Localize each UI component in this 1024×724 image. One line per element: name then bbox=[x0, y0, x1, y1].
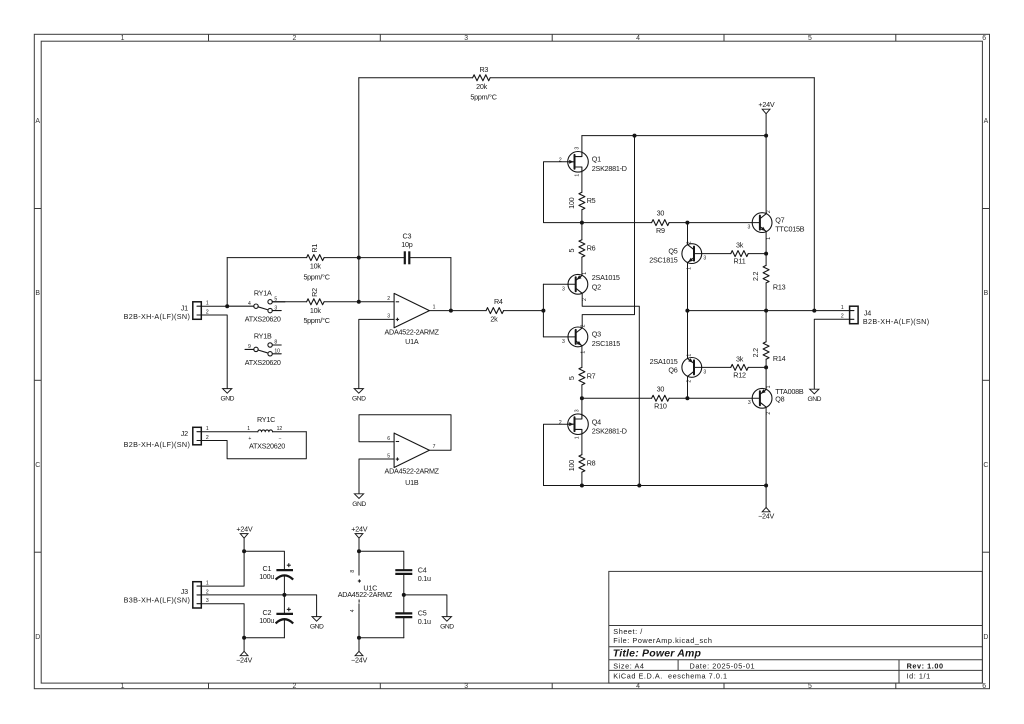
wire Q8 collector bbox=[765, 407, 767, 485]
svg-text:Rev: 1.00: Rev: 1.00 bbox=[907, 661, 944, 670]
svg-text:5ppm/°C: 5ppm/°C bbox=[303, 273, 329, 282]
connector J4 bbox=[841, 305, 930, 326]
relay switch RY1B bbox=[245, 332, 281, 367]
wire Q7 emitter bbox=[765, 232, 767, 254]
op-amp U1B bbox=[359, 415, 451, 494]
svg-text:ATXS20620: ATXS20620 bbox=[249, 442, 285, 451]
svg-text:GND: GND bbox=[808, 396, 822, 403]
svg-text:A: A bbox=[35, 118, 40, 125]
svg-text:GND: GND bbox=[352, 501, 366, 508]
wire Q2 collector to right rail bbox=[582, 293, 639, 485]
svg-text:3k: 3k bbox=[736, 355, 744, 364]
svg-text:Title: Power Amp: Title: Power Amp bbox=[613, 648, 702, 660]
node R9 Q5 junction bbox=[685, 221, 689, 225]
svg-text:100u: 100u bbox=[259, 616, 274, 625]
node R5 R6 junction bbox=[580, 221, 584, 225]
wire Q5 emitter bbox=[687, 263, 689, 311]
svg-text:Size: A4: Size: A4 bbox=[613, 661, 644, 670]
node -24V J3 junction bbox=[242, 636, 246, 640]
svg-text:1: 1 bbox=[841, 305, 844, 311]
svg-text:ATXS20620: ATXS20620 bbox=[245, 358, 281, 367]
node R14 R12 junction bbox=[764, 365, 768, 369]
svg-text:3k: 3k bbox=[736, 241, 744, 250]
resistor R9 bbox=[582, 209, 688, 235]
power -24V at U1C bbox=[351, 651, 367, 664]
svg-text:1: 1 bbox=[575, 174, 581, 177]
wire Q4 drain up bbox=[581, 398, 583, 414]
node R2 U1A junction bbox=[357, 300, 361, 304]
svg-text:4: 4 bbox=[248, 301, 251, 307]
svg-text:2.2: 2.2 bbox=[751, 272, 760, 281]
svg-text:−24V: −24V bbox=[351, 656, 367, 665]
title block text kicad bbox=[613, 672, 727, 681]
svg-text:3: 3 bbox=[748, 400, 751, 406]
connector J2 bbox=[124, 426, 209, 449]
svg-text:10k: 10k bbox=[310, 262, 321, 271]
wire Q7 collector bbox=[765, 136, 767, 214]
capacitor C3 bbox=[359, 232, 451, 311]
power +24V at J3 bbox=[236, 525, 252, 539]
svg-text:B3B-XH-A(LF)(SN): B3B-XH-A(LF)(SN) bbox=[124, 595, 191, 604]
svg-text:Q6: Q6 bbox=[668, 365, 677, 374]
svg-text:2SC1815: 2SC1815 bbox=[649, 256, 677, 265]
svg-text:20k: 20k bbox=[476, 82, 487, 91]
svg-text:+24V: +24V bbox=[236, 525, 252, 534]
svg-text:B: B bbox=[984, 290, 989, 297]
wire Q1 gate bbox=[544, 162, 582, 223]
wire output mid rail bbox=[687, 310, 814, 312]
svg-text:1: 1 bbox=[121, 683, 125, 690]
svg-text:2: 2 bbox=[292, 35, 296, 42]
svg-text:Q1: Q1 bbox=[592, 155, 601, 164]
svg-text:RY1A: RY1A bbox=[254, 288, 272, 297]
relay switch RY1A bbox=[227, 288, 285, 323]
node J1 pin1 junction bbox=[225, 304, 229, 308]
wire J3 pin2 to GND bbox=[201, 595, 316, 617]
svg-text:2: 2 bbox=[387, 296, 390, 302]
wire J1 pin2 to GND bbox=[201, 315, 227, 389]
resistor R14 bbox=[751, 311, 785, 368]
svg-text:2SK2881-D: 2SK2881-D bbox=[592, 164, 627, 173]
svg-text:5: 5 bbox=[808, 35, 812, 42]
node R7 R10 junction bbox=[580, 396, 584, 400]
op-amp U1A bbox=[359, 293, 451, 388]
wire +24V to U1C junction bbox=[358, 538, 360, 551]
resistor R3 bbox=[359, 65, 815, 311]
connector J3 bbox=[124, 581, 209, 608]
svg-text:GND: GND bbox=[220, 396, 234, 403]
svg-text:R2: R2 bbox=[310, 288, 319, 297]
svg-text:4: 4 bbox=[350, 609, 356, 612]
node R10 Q6 junction bbox=[685, 396, 689, 400]
svg-text:ADA4522-2ARMZ: ADA4522-2ARMZ bbox=[384, 328, 439, 337]
transistor Q2 bbox=[562, 272, 620, 301]
svg-text:2: 2 bbox=[766, 210, 772, 213]
transistor Q6 bbox=[650, 354, 707, 383]
wire Q4 source to R8 bbox=[581, 435, 583, 455]
svg-text:4: 4 bbox=[636, 35, 640, 42]
svg-text:U1A: U1A bbox=[405, 337, 419, 346]
ground GND at J4 bbox=[808, 389, 822, 403]
svg-text:Q2: Q2 bbox=[592, 282, 601, 291]
svg-text:Q4: Q4 bbox=[592, 417, 601, 426]
svg-text:Q5: Q5 bbox=[668, 247, 677, 256]
svg-text:6: 6 bbox=[387, 436, 390, 442]
svg-text:3: 3 bbox=[464, 683, 468, 690]
svg-text:6: 6 bbox=[982, 35, 986, 42]
svg-text:J2: J2 bbox=[181, 429, 188, 438]
svg-text:R4: R4 bbox=[494, 297, 503, 306]
svg-text:Sheet: /: Sheet: / bbox=[613, 627, 643, 636]
svg-text:ADA4522-2ARMZ: ADA4522-2ARMZ bbox=[385, 467, 440, 476]
ground GND at U1B pin5 bbox=[352, 494, 366, 508]
svg-text:1: 1 bbox=[582, 272, 588, 275]
wire J1 pin1 to junction bbox=[201, 305, 227, 307]
node R4 output junction bbox=[541, 309, 545, 313]
wire Q4 gate bbox=[544, 424, 568, 485]
svg-text:8: 8 bbox=[350, 570, 356, 573]
svg-text:2: 2 bbox=[559, 158, 562, 164]
title block text sheet bbox=[613, 627, 643, 636]
wire J4 pin2 to GND bbox=[814, 319, 849, 389]
wire junction up to R1 bbox=[226, 258, 228, 307]
svg-text:Q3: Q3 bbox=[592, 330, 601, 339]
transistor Q4 bbox=[559, 409, 627, 439]
svg-text:5: 5 bbox=[567, 376, 576, 380]
node mid rail R3 bbox=[812, 309, 816, 313]
svg-text:2.2: 2.2 bbox=[751, 348, 760, 357]
wire Q3 collector to top rail bbox=[582, 136, 634, 328]
svg-text:GND: GND bbox=[440, 624, 454, 631]
svg-text:3: 3 bbox=[703, 256, 706, 262]
title block text size bbox=[613, 661, 644, 670]
svg-text:B: B bbox=[35, 290, 40, 297]
svg-text:5: 5 bbox=[567, 248, 576, 252]
svg-text:1: 1 bbox=[121, 35, 125, 42]
svg-text:C: C bbox=[35, 462, 40, 469]
svg-text:R1: R1 bbox=[310, 244, 319, 253]
node -24V U1C junction bbox=[357, 636, 361, 640]
node +24V rail junction bbox=[764, 134, 768, 138]
op-amp power unit U1C bbox=[338, 551, 393, 638]
svg-text:4: 4 bbox=[636, 683, 640, 690]
svg-text:B2B-XH-A(LF)(SN): B2B-XH-A(LF)(SN) bbox=[124, 312, 191, 321]
wire +24V to J3 junction bbox=[243, 538, 245, 551]
node Q2 collector rail junction bbox=[637, 484, 641, 488]
svg-text:B2B-XH-A(LF)(SN): B2B-XH-A(LF)(SN) bbox=[863, 317, 930, 326]
svg-text:2SK2881-D: 2SK2881-D bbox=[592, 427, 627, 436]
wire J3 pin3 down bbox=[201, 604, 244, 638]
transistor Q8 bbox=[748, 385, 804, 414]
svg-text:3: 3 bbox=[562, 287, 565, 293]
resistor R6 bbox=[567, 223, 596, 276]
svg-text:6: 6 bbox=[982, 683, 986, 690]
wire Q3 base bbox=[543, 336, 568, 338]
transistor Q3 bbox=[562, 324, 620, 353]
relay coil RY1C bbox=[201, 415, 306, 459]
title block text file bbox=[613, 636, 712, 645]
svg-text:R3: R3 bbox=[479, 65, 488, 74]
resistor R2 bbox=[272, 288, 359, 325]
svg-text:R8: R8 bbox=[587, 459, 596, 468]
node R11 Q7 junction bbox=[764, 252, 768, 256]
wire mid rail to J4 pin1 bbox=[814, 310, 849, 312]
svg-text:10k: 10k bbox=[310, 306, 321, 315]
svg-text:2SC1815: 2SC1815 bbox=[592, 339, 620, 348]
svg-text:2SA1015: 2SA1015 bbox=[592, 273, 620, 282]
svg-text:1: 1 bbox=[766, 385, 772, 388]
svg-text:3: 3 bbox=[748, 225, 751, 231]
svg-text:B2B-XH-A(LF)(SN): B2B-XH-A(LF)(SN) bbox=[124, 440, 191, 449]
resistor R7 bbox=[567, 347, 596, 398]
svg-text:R10: R10 bbox=[654, 402, 667, 411]
svg-text:3: 3 bbox=[464, 35, 468, 42]
svg-text:C: C bbox=[983, 462, 988, 469]
capacitor C1 bbox=[259, 563, 293, 595]
svg-text:3: 3 bbox=[562, 339, 565, 345]
node mid rail R13 bbox=[764, 309, 768, 313]
svg-text:0.1u: 0.1u bbox=[418, 574, 431, 583]
node C4 C5 junction bbox=[402, 593, 406, 597]
svg-text:+24V: +24V bbox=[351, 525, 367, 534]
svg-text:5ppm/°C: 5ppm/°C bbox=[470, 93, 496, 102]
node Q1 rail junction bbox=[633, 134, 637, 138]
svg-text:Q7: Q7 bbox=[775, 216, 784, 225]
svg-text:R7: R7 bbox=[587, 371, 596, 380]
wire Q5 collector bbox=[687, 223, 689, 245]
svg-text:Date: 2025-05-01: Date: 2025-05-01 bbox=[690, 661, 756, 670]
svg-text:2: 2 bbox=[292, 683, 296, 690]
svg-text:3: 3 bbox=[575, 409, 581, 412]
svg-text:GND: GND bbox=[352, 396, 366, 403]
resistor R13 bbox=[751, 254, 785, 311]
svg-text:TTC015B: TTC015B bbox=[775, 225, 804, 234]
node +24V J3 junction bbox=[242, 549, 246, 553]
capacitor C4 bbox=[395, 566, 431, 595]
power +24V at U1C bbox=[351, 525, 367, 539]
node R1 C3 junction bbox=[357, 256, 361, 260]
svg-text:ATXS20620: ATXS20620 bbox=[245, 315, 281, 324]
node U1A output junction bbox=[449, 309, 453, 313]
wire Q1 drain up bbox=[581, 136, 583, 152]
node R8 rail junction bbox=[580, 484, 584, 488]
svg-text:GND: GND bbox=[310, 624, 324, 631]
svg-text:2k: 2k bbox=[490, 314, 498, 323]
svg-text:1: 1 bbox=[433, 305, 436, 311]
node -24V rail junction bbox=[764, 484, 768, 488]
svg-text:RY1C: RY1C bbox=[257, 415, 275, 424]
svg-text:3: 3 bbox=[575, 147, 581, 150]
svg-text:100: 100 bbox=[567, 460, 576, 471]
svg-text:1: 1 bbox=[206, 581, 209, 587]
svg-text:File: PowerAmp.kicad_sch: File: PowerAmp.kicad_sch bbox=[613, 636, 712, 645]
svg-text:1: 1 bbox=[575, 436, 581, 439]
node +24V U1C junction bbox=[357, 549, 361, 553]
title block text rev bbox=[907, 661, 944, 670]
ground GND at J1 bbox=[220, 389, 234, 403]
ground GND at C4 C5 bbox=[440, 617, 454, 631]
svg-text:3: 3 bbox=[703, 369, 706, 375]
svg-text:R9: R9 bbox=[656, 226, 665, 235]
wire to -24V at J3 bbox=[243, 638, 245, 652]
svg-text:+24V: +24V bbox=[758, 100, 774, 109]
svg-text:Id: 1/1: Id: 1/1 bbox=[907, 672, 931, 681]
node mid rail Q5 bbox=[685, 309, 689, 313]
svg-text:30: 30 bbox=[657, 209, 665, 218]
wire to -24V at U1C bbox=[358, 638, 360, 652]
title block bbox=[609, 571, 983, 683]
wire Q2 Q3 base vertical bbox=[542, 284, 544, 337]
svg-text:Q8: Q8 bbox=[775, 395, 784, 404]
ground GND at J3 bbox=[310, 617, 324, 631]
wire to -24V output stage bbox=[765, 486, 767, 508]
svg-text:30: 30 bbox=[657, 385, 665, 394]
wire C5 bottom rail bbox=[359, 637, 404, 639]
svg-text:12: 12 bbox=[277, 426, 283, 432]
svg-text:D: D bbox=[983, 634, 988, 641]
power -24V output stage bbox=[758, 507, 774, 520]
resistor R4 bbox=[451, 297, 544, 323]
svg-text:100u: 100u bbox=[259, 572, 274, 581]
transistor Q7 bbox=[748, 210, 805, 240]
capacitor C5 bbox=[395, 595, 431, 638]
svg-text:3: 3 bbox=[274, 306, 277, 312]
svg-text:R14: R14 bbox=[773, 354, 786, 363]
resistor R1 bbox=[227, 244, 359, 282]
svg-text:J4: J4 bbox=[864, 308, 871, 317]
wire junction to C4 top bbox=[359, 551, 404, 570]
resistor R12 bbox=[702, 355, 766, 380]
svg-text:R13: R13 bbox=[773, 283, 786, 292]
wire Q1 source to R5 bbox=[581, 172, 583, 192]
svg-text:10p: 10p bbox=[401, 240, 412, 249]
svg-text:U1B: U1B bbox=[405, 478, 419, 487]
svg-text:1: 1 bbox=[247, 426, 250, 432]
svg-text:−24V: −24V bbox=[758, 512, 774, 521]
svg-text:10: 10 bbox=[274, 349, 280, 355]
wire Q2 base bbox=[543, 283, 568, 285]
svg-text:ADA4522-2ARMZ: ADA4522-2ARMZ bbox=[338, 590, 393, 599]
svg-text:9: 9 bbox=[248, 344, 251, 350]
svg-text:7: 7 bbox=[433, 444, 436, 450]
power +24V top bbox=[758, 100, 774, 135]
svg-text:8: 8 bbox=[274, 340, 277, 346]
svg-text:2: 2 bbox=[582, 298, 588, 301]
svg-text:R6: R6 bbox=[587, 244, 596, 253]
resistor R10 bbox=[582, 385, 688, 411]
svg-text:100: 100 bbox=[567, 197, 576, 208]
svg-text:2: 2 bbox=[581, 324, 587, 327]
wire R9 to Q7 base bbox=[687, 222, 752, 224]
connector J1 bbox=[124, 301, 209, 321]
svg-text:5: 5 bbox=[387, 453, 390, 459]
title block text title bbox=[613, 648, 702, 660]
svg-text:KiCad E.D.A. eeschema 7.0.1: KiCad E.D.A. eeschema 7.0.1 bbox=[613, 672, 727, 681]
resistor R11 bbox=[702, 241, 766, 266]
svg-text:3: 3 bbox=[387, 314, 390, 320]
power -24V at J3 bbox=[236, 651, 252, 664]
wire R10 to Q8 base bbox=[687, 397, 752, 399]
wire Q6 collector bbox=[687, 376, 689, 398]
transistor Q5 bbox=[649, 241, 706, 270]
svg-text:5: 5 bbox=[808, 683, 812, 690]
resistor R5 bbox=[567, 192, 596, 222]
svg-text:C3: C3 bbox=[403, 232, 412, 241]
wire Q6 emitter bbox=[687, 311, 689, 359]
svg-text:1: 1 bbox=[766, 237, 772, 240]
wire feedback vertical bbox=[358, 78, 360, 302]
wire Q8 emitter bbox=[765, 367, 767, 389]
resistor R8 bbox=[567, 455, 596, 486]
svg-text:R11: R11 bbox=[734, 257, 746, 266]
svg-text:D: D bbox=[35, 634, 40, 641]
wire C4 junction to GND bbox=[404, 595, 447, 617]
svg-text:RY1B: RY1B bbox=[254, 332, 272, 341]
wire junction down to J3 pin1 bbox=[201, 551, 244, 586]
transistor Q1 bbox=[559, 147, 627, 177]
svg-text:A: A bbox=[984, 118, 989, 125]
title block text id bbox=[907, 672, 931, 681]
wire C2 bottom rail bbox=[244, 637, 284, 639]
capacitor C2 bbox=[259, 595, 293, 638]
wire junction to C1 top bbox=[244, 551, 284, 570]
svg-text:R5: R5 bbox=[587, 196, 596, 205]
svg-text:2: 2 bbox=[559, 420, 562, 426]
wire bottom rail bbox=[544, 485, 767, 487]
title block text date bbox=[690, 661, 756, 670]
svg-text:5ppm/°C: 5ppm/°C bbox=[303, 316, 329, 325]
node C1 C2 junction bbox=[282, 593, 286, 597]
svg-text:−24V: −24V bbox=[236, 656, 252, 665]
svg-text:R12: R12 bbox=[733, 371, 746, 380]
wire +24V top rail bbox=[582, 135, 766, 137]
svg-text:0.1u: 0.1u bbox=[418, 617, 431, 626]
svg-text:2: 2 bbox=[766, 412, 772, 415]
ground GND at U1A pin3 bbox=[352, 389, 366, 403]
